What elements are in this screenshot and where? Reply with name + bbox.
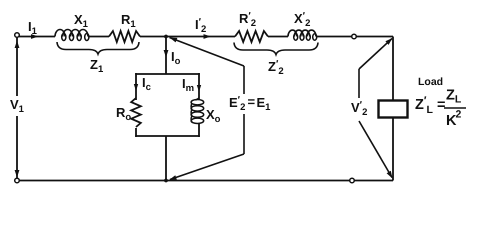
inductor X1	[55, 30, 89, 41]
wire X1 to R1	[88, 36, 109, 38]
wire X2' to right corner	[316, 36, 393, 38]
terminal bottom-right	[350, 178, 355, 183]
label R1	[121, 12, 136, 30]
wire V2' diag top	[359, 39, 392, 70]
wire node A to R2'	[166, 36, 235, 38]
wire Xo branch lower	[198, 124, 200, 138]
inductor Xo	[191, 98, 204, 124]
label X1	[74, 12, 89, 30]
node B junction dot	[164, 179, 168, 183]
svg-text:Load: Load	[418, 76, 443, 88]
terminal top-right	[352, 34, 357, 39]
label X2'	[294, 11, 310, 29]
label I2'	[195, 17, 206, 35]
arrow V1 up	[15, 41, 20, 49]
wire node A down	[165, 37, 167, 75]
wire R2' to X2'	[268, 36, 288, 38]
wire left vertical lower	[16, 116, 18, 181]
wire top rail left section	[19, 36, 55, 38]
label Z2'	[268, 59, 284, 77]
arrow Io	[164, 50, 169, 58]
label R2'	[239, 11, 256, 29]
wire shunt bottom bar	[135, 135, 200, 137]
arrow V2' top	[385, 38, 392, 45]
wire right vertical lower	[392, 118, 394, 181]
inductor X2'	[288, 30, 317, 40]
label V2'	[351, 100, 367, 118]
label Io	[171, 49, 181, 67]
arrow Im	[197, 85, 201, 92]
label V1	[10, 97, 25, 115]
arrow I2'	[204, 34, 212, 39]
label Z1	[90, 57, 104, 75]
resistor R1	[109, 31, 140, 42]
label Load	[418, 76, 443, 88]
arrow V1 down	[15, 170, 20, 178]
label Im	[182, 76, 194, 94]
wire E2' diag top	[170, 38, 245, 67]
svg-text:2: 2	[456, 109, 462, 121]
load box ZL'	[379, 101, 408, 118]
wire R1 to node A	[140, 36, 166, 38]
label I1	[28, 19, 38, 37]
wire E2' vertical lower	[243, 114, 245, 154]
wire Xo branch upper	[198, 73, 200, 99]
wire Ro branch upper	[135, 73, 137, 100]
label Xo	[206, 107, 221, 125]
wire right vertical upper	[392, 37, 394, 101]
arrow V2' bottom	[387, 171, 393, 179]
terminal top-left	[15, 33, 20, 38]
wire left vertical upper	[16, 37, 18, 97]
resistor Ro	[131, 98, 141, 127]
arrow I1	[31, 34, 39, 39]
wire E2' vertical upper	[243, 66, 245, 94]
terminal bottom-left	[15, 178, 20, 183]
wire shunt to bottom rail	[165, 136, 167, 181]
wire V2' diag bottom	[359, 121, 392, 178]
label Ic	[142, 75, 151, 93]
arrow E2' top	[170, 38, 178, 43]
label E2'=E1	[229, 94, 271, 113]
label ZL' formula	[415, 88, 466, 130]
arrow E2' bottom	[169, 175, 177, 180]
svg-text:=: =	[248, 94, 256, 109]
wire V2' vertical upper	[358, 69, 360, 98]
wire E2' diag bottom	[170, 154, 244, 180]
wire bottom rail	[19, 180, 393, 182]
arrow Ic	[134, 84, 138, 91]
node A junction dot	[164, 35, 168, 39]
wire Ro branch lower	[135, 128, 137, 137]
label Ro	[116, 105, 131, 123]
brace Z2'	[234, 43, 318, 55]
wire shunt top bar	[135, 73, 200, 75]
resistor R2'	[235, 31, 268, 42]
brace Z1	[57, 42, 139, 54]
